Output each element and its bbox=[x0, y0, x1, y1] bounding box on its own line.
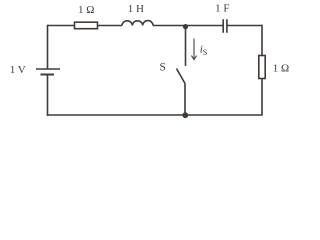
wire left side lower bbox=[47, 75, 49, 116]
battery V1 long plate bbox=[36, 68, 60, 70]
wire inductor to capacitor bbox=[153, 25, 223, 27]
battery V1 short plate bbox=[41, 74, 55, 76]
wire middle branch upper bbox=[185, 27, 187, 67]
wire resistor to inductor bbox=[98, 25, 123, 27]
wire left side upper bbox=[47, 25, 49, 69]
wire capacitor to top-right corner bbox=[227, 25, 262, 27]
wire bottom bbox=[47, 114, 263, 116]
resistor R2 (1 ohm, right) bbox=[259, 56, 265, 79]
svg-text:1 Ω: 1 Ω bbox=[273, 63, 289, 75]
current arrow i_s bbox=[191, 39, 196, 60]
wire middle branch lower bbox=[184, 84, 186, 116]
switch S blade bbox=[177, 69, 186, 84]
capacitor C1 (1 F) plates bbox=[223, 19, 227, 33]
node junction dot bottom bbox=[182, 112, 188, 118]
svg-text:1 F: 1 F bbox=[215, 2, 229, 14]
inductor L1 (1 H) bbox=[122, 21, 153, 26]
node junction dot top bbox=[183, 24, 188, 29]
svg-text:iS: iS bbox=[200, 44, 208, 58]
resistor R1 (1 ohm, top) bbox=[75, 22, 98, 29]
wire right side lower bbox=[261, 79, 263, 116]
wire right side upper bbox=[261, 25, 263, 56]
svg-text:1 Ω: 1 Ω bbox=[78, 4, 94, 16]
wire top-left horizontal bbox=[48, 25, 75, 27]
svg-text:1 V: 1 V bbox=[10, 64, 26, 76]
svg-text:1 H: 1 H bbox=[128, 3, 144, 15]
svg-text:S: S bbox=[159, 61, 165, 73]
